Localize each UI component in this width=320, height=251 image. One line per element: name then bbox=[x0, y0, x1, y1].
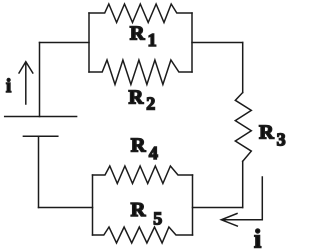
wire bottom-left horizontal bbox=[39, 207, 93, 209]
battery negative plate bbox=[23, 135, 57, 137]
wire bottom box right vertical bbox=[192, 175, 194, 235]
wire right vertical upper bbox=[242, 43, 244, 93]
label R2 bbox=[129, 87, 156, 114]
wire right vertical lower bbox=[242, 161, 244, 207]
svg-text:R: R bbox=[130, 23, 145, 45]
wire top box left vertical bbox=[88, 13, 90, 72]
resistor R4 bbox=[93, 166, 193, 184]
svg-text:R: R bbox=[129, 87, 144, 109]
resistor R1 bbox=[89, 4, 192, 23]
svg-text:5: 5 bbox=[153, 208, 162, 228]
label R4 bbox=[131, 134, 158, 163]
svg-text:i: i bbox=[254, 224, 261, 251]
label R5 bbox=[131, 199, 163, 228]
svg-text:R: R bbox=[131, 199, 146, 221]
svg-text:R: R bbox=[131, 134, 146, 156]
wire top-right horizontal bbox=[192, 42, 243, 44]
current arrow i (left, pointing up) bbox=[19, 62, 33, 104]
resistor R5 bbox=[93, 227, 193, 243]
svg-text:4: 4 bbox=[149, 143, 158, 163]
svg-text:R: R bbox=[259, 122, 274, 144]
svg-text:3: 3 bbox=[277, 130, 286, 150]
resistor R2 bbox=[89, 60, 192, 85]
resistor R3 bbox=[235, 93, 251, 162]
current arrow i (bottom right, pointing left) bbox=[221, 177, 262, 226]
wire top-left horizontal bbox=[40, 42, 90, 44]
wire left vertical upper bbox=[39, 43, 41, 117]
label R1 bbox=[130, 23, 157, 51]
battery positive plate bbox=[5, 116, 77, 118]
svg-text:i: i bbox=[6, 77, 11, 97]
wire bottom box left vertical bbox=[92, 175, 94, 235]
svg-text:1: 1 bbox=[148, 30, 157, 50]
wire top box right vertical bbox=[191, 13, 193, 72]
svg-text:2: 2 bbox=[146, 94, 155, 114]
wire left vertical lower bbox=[38, 136, 40, 207]
wire bottom-right horizontal bbox=[193, 207, 243, 209]
label R3 bbox=[259, 122, 286, 150]
